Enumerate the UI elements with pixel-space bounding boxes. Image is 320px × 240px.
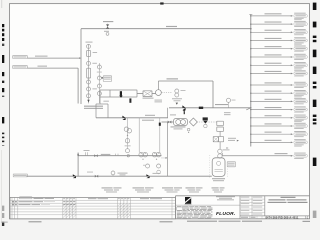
svg-text:8474-360-PID-360-A-4011: 8474-360-PID-360-A-4011 (266, 215, 299, 219)
svg-text:FLUOR.: FLUOR. (216, 211, 235, 217)
